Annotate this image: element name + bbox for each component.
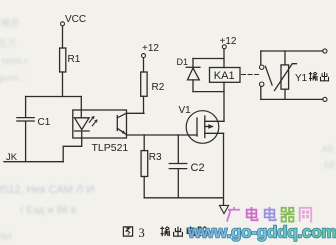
svg-text:포즈: 포즈 (0, 39, 16, 50)
svg-text:БЕ: БЕ (324, 160, 336, 170)
svg-text:hmm t: hmm t (2, 56, 28, 66)
svg-text:R3: R3 (149, 152, 162, 163)
svg-text:R2: R2 (152, 82, 165, 93)
svg-text:TLP521: TLP521 (92, 142, 129, 154)
svg-text:D1: D1 (177, 57, 189, 67)
svg-text:8512, Hек СAМ Л И: 8512, Hек СAМ Л И (0, 184, 94, 196)
svg-text:г Еад ж 88 в: г Еад ж 88 в (20, 205, 76, 216)
svg-text:빠른: 빠른 (0, 18, 19, 30)
svg-text:3: 3 (139, 226, 145, 240)
svg-text:V1: V1 (179, 105, 192, 116)
svg-text:АБ: АБ (322, 144, 334, 154)
svg-text:C1: C1 (38, 117, 51, 128)
svg-text:www.go-gddq.com: www.go-gddq.com (187, 223, 336, 242)
svg-text:KA1: KA1 (214, 70, 235, 82)
svg-text:VCC: VCC (65, 14, 86, 25)
svg-text:Y1: Y1 (295, 73, 308, 84)
svg-text:R1: R1 (68, 54, 81, 65)
svg-text:JK: JK (6, 152, 18, 163)
svg-text:+12: +12 (220, 36, 237, 47)
svg-text:C2: C2 (191, 162, 205, 174)
svg-text:+12: +12 (142, 43, 159, 54)
svg-text:guml...: guml... (0, 73, 25, 83)
svg-text:ИИ: ИИ (0, 232, 11, 243)
